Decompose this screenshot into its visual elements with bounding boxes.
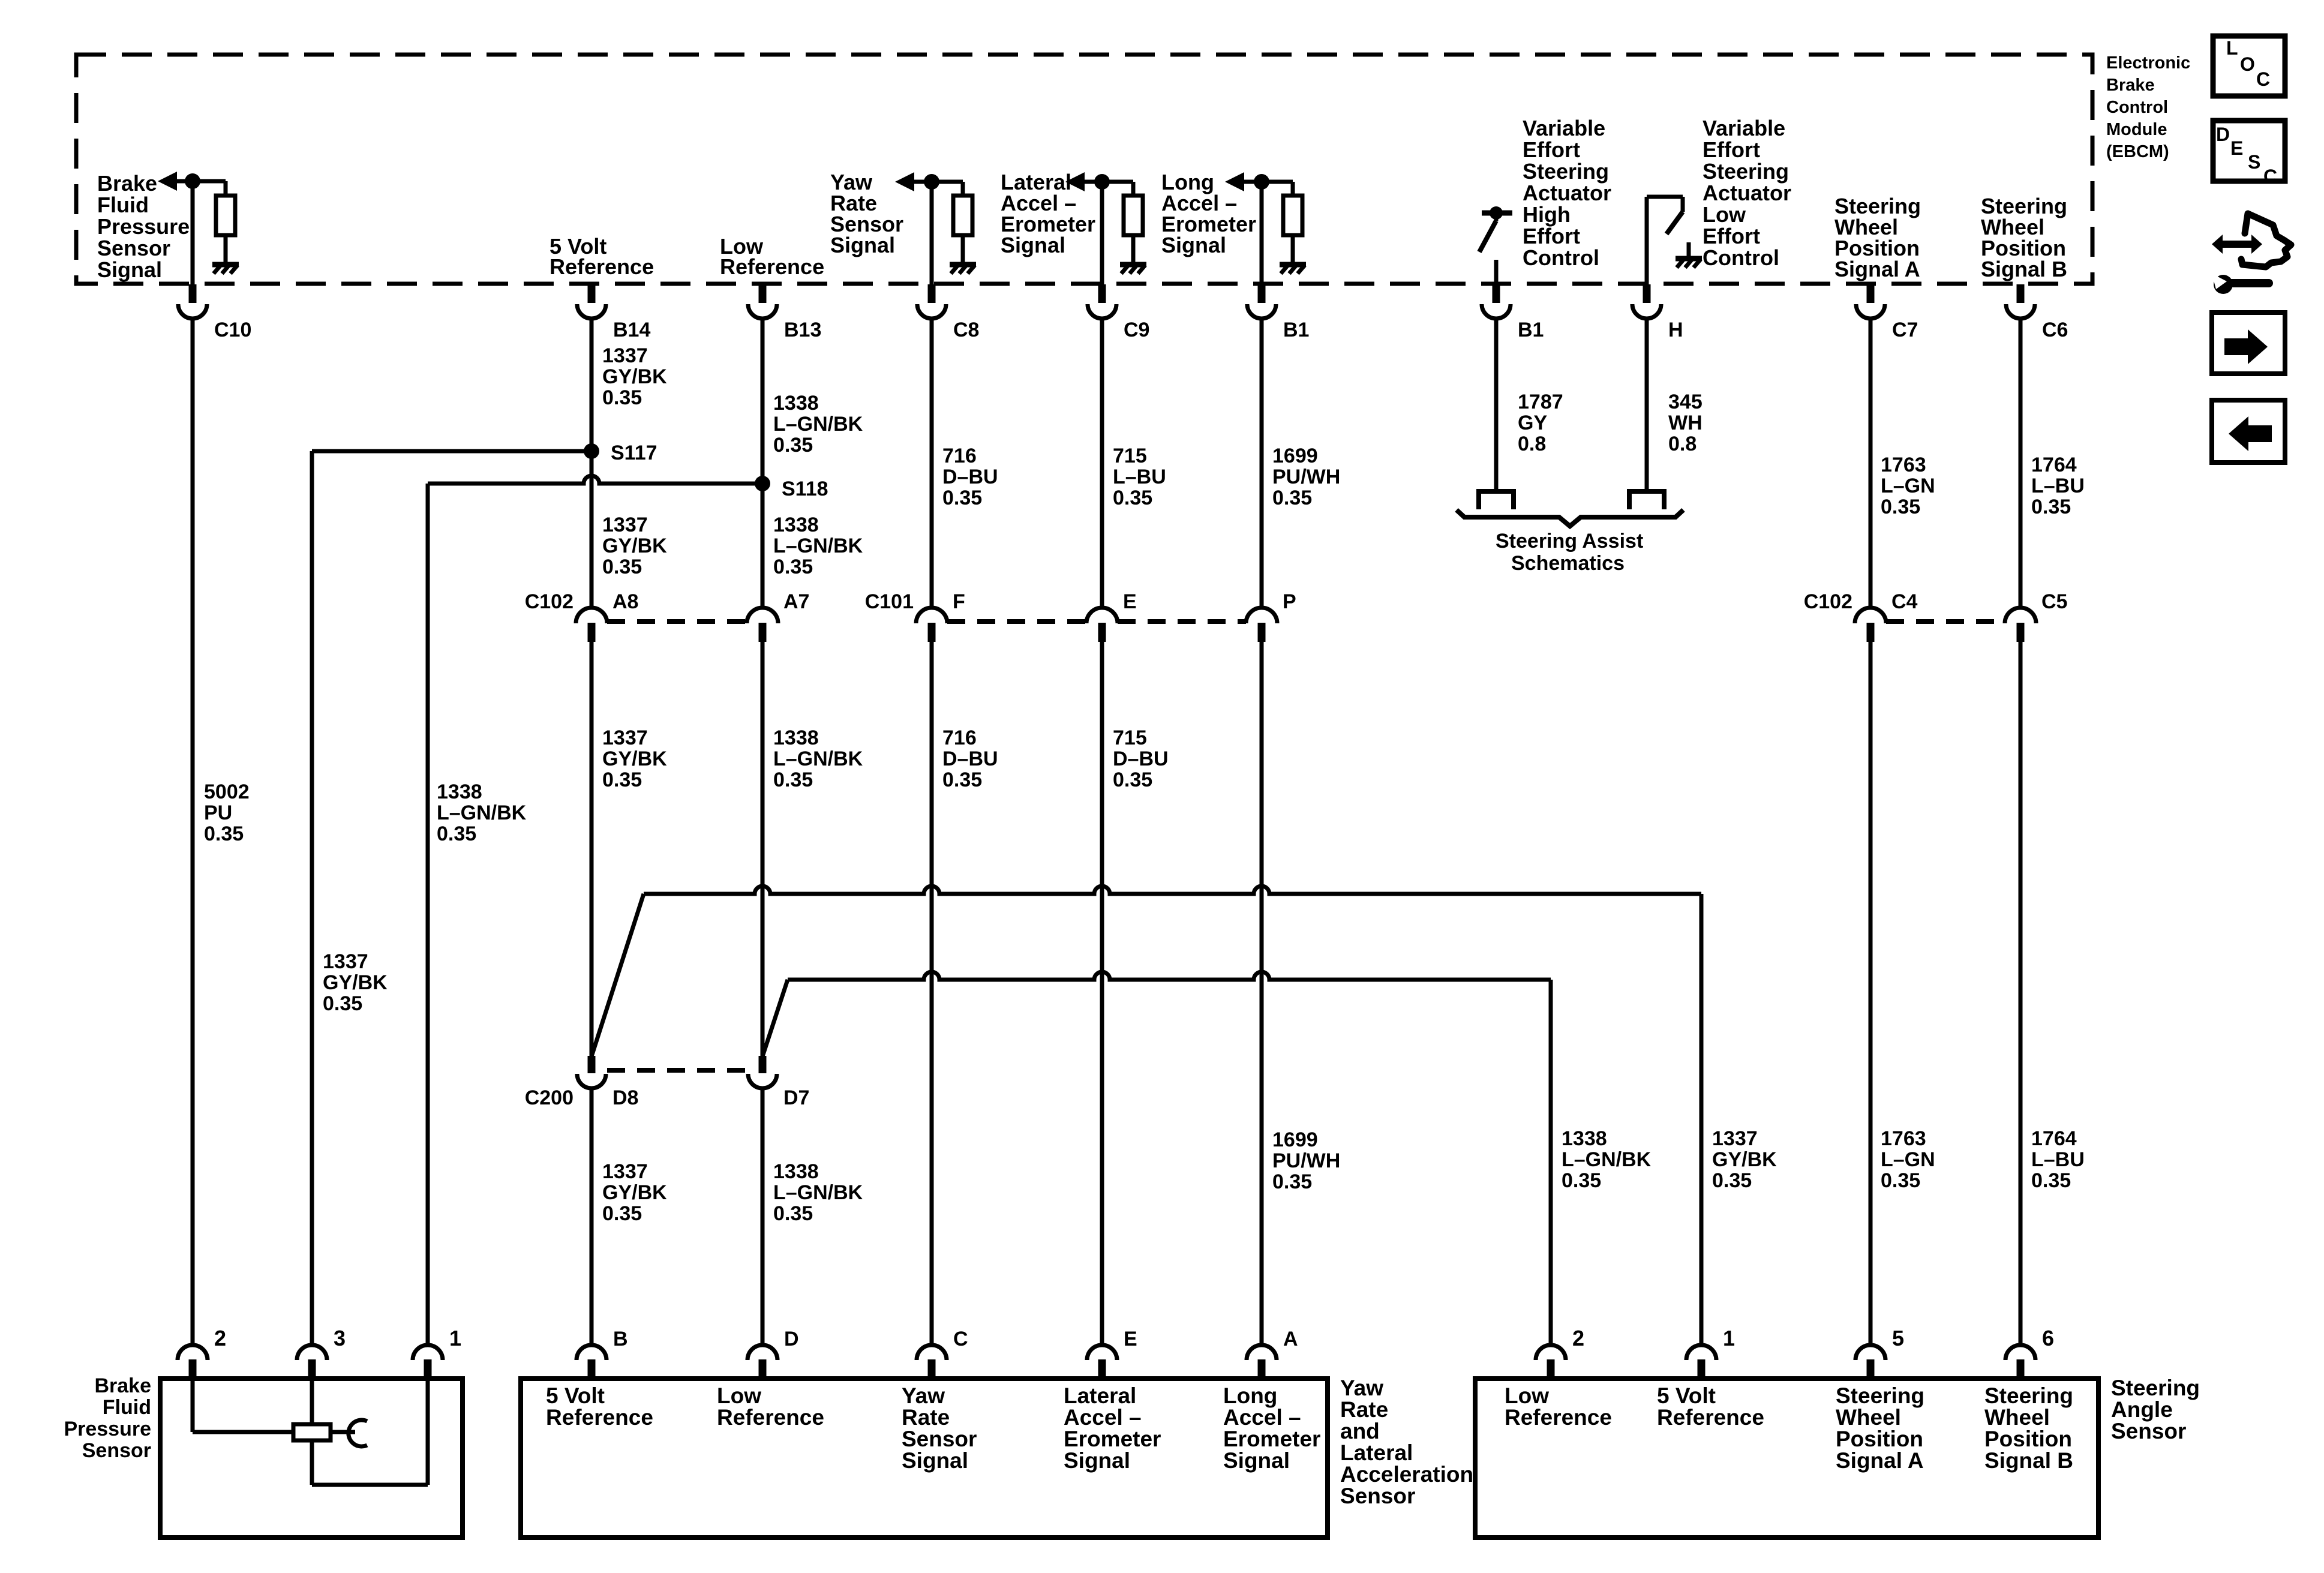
svg-text:0.35: 0.35 bbox=[602, 556, 642, 578]
svg-text:E: E bbox=[1123, 590, 1137, 613]
svg-text:716: 716 bbox=[942, 445, 977, 467]
svg-text:Control: Control bbox=[1703, 245, 1779, 270]
svg-text:Effort: Effort bbox=[1523, 137, 1580, 162]
svg-text:Rate: Rate bbox=[902, 1405, 950, 1430]
svg-text:S117: S117 bbox=[611, 442, 657, 464]
svg-text:A: A bbox=[1283, 1328, 1298, 1350]
svg-text:0.35: 0.35 bbox=[1562, 1169, 1601, 1192]
svg-text:Lateral: Lateral bbox=[1064, 1383, 1136, 1408]
svg-text:0.35: 0.35 bbox=[1113, 487, 1152, 509]
svg-text:WH: WH bbox=[1668, 412, 1703, 434]
svg-text:L–BU: L–BU bbox=[1113, 466, 1166, 488]
svg-text:1338: 1338 bbox=[773, 392, 819, 415]
svg-text:D8: D8 bbox=[612, 1086, 638, 1109]
svg-text:C200: C200 bbox=[525, 1086, 574, 1109]
svg-text:0.35: 0.35 bbox=[773, 1202, 813, 1225]
svg-text:Signal A: Signal A bbox=[1836, 1448, 1924, 1473]
svg-text:GY/BK: GY/BK bbox=[323, 971, 388, 994]
svg-text:Brake: Brake bbox=[2106, 76, 2155, 95]
svg-text:Signal: Signal bbox=[1064, 1448, 1130, 1473]
svg-text:Acceleration: Acceleration bbox=[1340, 1462, 1473, 1487]
svg-text:Actuator: Actuator bbox=[1523, 181, 1611, 205]
svg-text:C: C bbox=[953, 1328, 968, 1350]
svg-text:A7: A7 bbox=[783, 590, 809, 613]
svg-text:GY/BK: GY/BK bbox=[602, 748, 667, 770]
svg-text:Reference: Reference bbox=[717, 1405, 824, 1430]
svg-text:C: C bbox=[2256, 68, 2270, 90]
svg-text:S118: S118 bbox=[782, 478, 828, 500]
svg-text:Brake: Brake bbox=[97, 171, 157, 196]
svg-text:D–BU: D–BU bbox=[1113, 748, 1169, 770]
svg-text:1338: 1338 bbox=[773, 514, 819, 536]
svg-text:5: 5 bbox=[1892, 1326, 1904, 1350]
svg-text:1764: 1764 bbox=[2031, 1127, 2077, 1150]
svg-text:5 Volt: 5 Volt bbox=[546, 1383, 605, 1408]
svg-text:Yaw: Yaw bbox=[1340, 1376, 1383, 1400]
svg-text:0.35: 0.35 bbox=[602, 769, 642, 791]
svg-text:C9: C9 bbox=[1124, 319, 1149, 341]
svg-text:D–BU: D–BU bbox=[942, 748, 998, 770]
svg-text:PU: PU bbox=[204, 801, 232, 824]
svg-text:B1: B1 bbox=[1283, 319, 1309, 341]
svg-text:C102: C102 bbox=[1804, 590, 1852, 613]
svg-text:L–GN/BK: L–GN/BK bbox=[773, 748, 863, 770]
svg-text:Signal: Signal bbox=[97, 257, 162, 282]
svg-text:GY/BK: GY/BK bbox=[1712, 1148, 1777, 1171]
svg-text:Control: Control bbox=[1523, 245, 1599, 270]
svg-text:B14: B14 bbox=[613, 319, 650, 341]
svg-text:Sensor: Sensor bbox=[97, 236, 170, 260]
svg-text:1337: 1337 bbox=[602, 1160, 648, 1183]
svg-text:1337: 1337 bbox=[1712, 1127, 1758, 1150]
svg-text:0.8: 0.8 bbox=[1668, 433, 1697, 455]
svg-text:3: 3 bbox=[334, 1326, 346, 1350]
svg-text:Steering: Steering bbox=[1523, 159, 1609, 184]
svg-text:E: E bbox=[1124, 1328, 1137, 1350]
svg-text:5 Volt: 5 Volt bbox=[1657, 1383, 1716, 1408]
svg-text:Reference: Reference bbox=[550, 254, 654, 279]
svg-text:5002: 5002 bbox=[204, 781, 250, 803]
svg-text:2: 2 bbox=[1572, 1326, 1584, 1350]
svg-text:Brake: Brake bbox=[94, 1374, 151, 1397]
svg-text:B: B bbox=[613, 1328, 628, 1350]
svg-text:0.35: 0.35 bbox=[2031, 496, 2071, 518]
svg-text:Reference: Reference bbox=[1505, 1405, 1612, 1430]
svg-text:Steering Assist: Steering Assist bbox=[1496, 530, 1643, 553]
svg-text:GY: GY bbox=[1518, 412, 1547, 434]
svg-text:D–BU: D–BU bbox=[942, 466, 998, 488]
svg-text:Wheel: Wheel bbox=[1984, 1405, 2050, 1430]
svg-text:Pressure: Pressure bbox=[97, 214, 190, 239]
svg-text:L–BU: L–BU bbox=[2031, 475, 2085, 497]
svg-text:1337: 1337 bbox=[323, 950, 368, 973]
svg-text:1763: 1763 bbox=[1881, 1127, 1926, 1150]
svg-text:715: 715 bbox=[1113, 727, 1147, 749]
svg-text:L–BU: L–BU bbox=[2031, 1148, 2085, 1171]
svg-text:1: 1 bbox=[449, 1326, 461, 1350]
svg-text:Signal A: Signal A bbox=[1834, 257, 1920, 281]
svg-text:Long: Long bbox=[1223, 1383, 1277, 1408]
svg-text:Position: Position bbox=[1836, 1427, 1923, 1451]
svg-text:1338: 1338 bbox=[773, 1160, 819, 1183]
svg-text:Schematics: Schematics bbox=[1511, 552, 1625, 575]
svg-text:Actuator: Actuator bbox=[1703, 181, 1791, 205]
svg-text:Variable: Variable bbox=[1703, 116, 1785, 140]
svg-text:Module: Module bbox=[2106, 120, 2167, 139]
svg-text:C: C bbox=[2263, 166, 2277, 187]
svg-text:L–GN/BK: L–GN/BK bbox=[773, 1181, 863, 1204]
svg-text:C5: C5 bbox=[2041, 590, 2067, 613]
svg-text:C101: C101 bbox=[865, 590, 914, 613]
svg-text:Sensor: Sensor bbox=[82, 1439, 151, 1462]
svg-text:L: L bbox=[2226, 37, 2238, 59]
svg-text:Effort: Effort bbox=[1703, 224, 1760, 248]
svg-text:2: 2 bbox=[214, 1326, 226, 1350]
svg-text:0.35: 0.35 bbox=[437, 822, 476, 845]
svg-text:1699: 1699 bbox=[1272, 1128, 1318, 1151]
svg-text:Sensor: Sensor bbox=[2111, 1419, 2186, 1443]
svg-text:0.35: 0.35 bbox=[1881, 496, 1920, 518]
svg-text:High: High bbox=[1523, 202, 1571, 227]
svg-text:L–GN/BK: L–GN/BK bbox=[773, 413, 863, 436]
svg-text:1338: 1338 bbox=[1562, 1127, 1607, 1150]
svg-text:H: H bbox=[1668, 319, 1683, 341]
svg-text:6: 6 bbox=[2042, 1326, 2054, 1350]
svg-text:1699: 1699 bbox=[1272, 445, 1318, 467]
svg-text:(EBCM): (EBCM) bbox=[2106, 142, 2169, 161]
svg-text:Sensor: Sensor bbox=[902, 1427, 977, 1451]
svg-text:0.35: 0.35 bbox=[204, 822, 244, 845]
svg-text:Signal: Signal bbox=[1223, 1448, 1290, 1473]
svg-text:0.35: 0.35 bbox=[942, 769, 982, 791]
svg-text:Angle: Angle bbox=[2111, 1397, 2173, 1422]
svg-text:0.35: 0.35 bbox=[773, 556, 813, 578]
svg-text:A8: A8 bbox=[612, 590, 638, 613]
svg-text:1: 1 bbox=[1723, 1326, 1735, 1350]
svg-text:GY/BK: GY/BK bbox=[602, 1181, 667, 1204]
svg-text:D: D bbox=[2216, 124, 2230, 145]
svg-text:C8: C8 bbox=[953, 319, 979, 341]
svg-text:D7: D7 bbox=[783, 1086, 809, 1109]
svg-text:1338: 1338 bbox=[437, 781, 482, 803]
svg-text:L–GN/BK: L–GN/BK bbox=[1562, 1148, 1652, 1171]
svg-text:S: S bbox=[2248, 151, 2260, 173]
svg-text:0.35: 0.35 bbox=[602, 1202, 642, 1225]
svg-text:1763: 1763 bbox=[1881, 454, 1926, 476]
svg-text:Effort: Effort bbox=[1703, 137, 1760, 162]
svg-text:L–GN: L–GN bbox=[1881, 475, 1935, 497]
svg-text:Pressure: Pressure bbox=[64, 1418, 151, 1440]
svg-text:Signal: Signal bbox=[902, 1448, 968, 1473]
svg-text:0.35: 0.35 bbox=[1113, 769, 1152, 791]
svg-text:Sensor: Sensor bbox=[1340, 1484, 1415, 1508]
svg-text:0.8: 0.8 bbox=[1518, 433, 1546, 455]
svg-text:345: 345 bbox=[1668, 391, 1703, 413]
svg-text:Low: Low bbox=[1505, 1383, 1549, 1408]
svg-text:Fluid: Fluid bbox=[103, 1396, 151, 1419]
svg-text:0.35: 0.35 bbox=[1272, 487, 1312, 509]
svg-text:L–GN/BK: L–GN/BK bbox=[773, 535, 863, 557]
svg-text:Electronic: Electronic bbox=[2106, 53, 2190, 73]
svg-text:0.35: 0.35 bbox=[602, 386, 642, 409]
svg-text:0.35: 0.35 bbox=[1881, 1169, 1920, 1192]
svg-text:C7: C7 bbox=[1892, 319, 1918, 341]
svg-text:Signal: Signal bbox=[830, 233, 895, 257]
svg-text:1337: 1337 bbox=[602, 344, 648, 367]
svg-text:1337: 1337 bbox=[602, 514, 648, 536]
svg-text:Reference: Reference bbox=[1657, 1405, 1764, 1430]
svg-text:Signal: Signal bbox=[1161, 233, 1226, 257]
svg-text:Position: Position bbox=[1984, 1427, 2072, 1451]
svg-text:Low: Low bbox=[1703, 202, 1746, 227]
svg-text:Steering: Steering bbox=[1836, 1383, 1924, 1408]
svg-text:1338: 1338 bbox=[773, 727, 819, 749]
svg-text:Lateral: Lateral bbox=[1340, 1440, 1413, 1465]
svg-text:1787: 1787 bbox=[1518, 391, 1563, 413]
svg-text:Wheel: Wheel bbox=[1836, 1405, 1901, 1430]
svg-text:F: F bbox=[953, 590, 965, 613]
svg-text:Yaw: Yaw bbox=[902, 1383, 945, 1408]
svg-text:0.35: 0.35 bbox=[1272, 1170, 1312, 1193]
svg-text:0.35: 0.35 bbox=[1712, 1169, 1752, 1192]
svg-text:P: P bbox=[1283, 590, 1296, 613]
svg-text:B1: B1 bbox=[1518, 319, 1544, 341]
svg-text:GY/BK: GY/BK bbox=[602, 535, 667, 557]
svg-text:0.35: 0.35 bbox=[773, 434, 813, 457]
svg-text:C6: C6 bbox=[2042, 319, 2068, 341]
svg-text:C102: C102 bbox=[525, 590, 574, 613]
svg-text:PU/WH: PU/WH bbox=[1272, 466, 1340, 488]
svg-text:Signal: Signal bbox=[1001, 233, 1065, 257]
svg-text:Effort: Effort bbox=[1523, 224, 1580, 248]
svg-text:0.35: 0.35 bbox=[323, 992, 362, 1015]
svg-text:Control: Control bbox=[2106, 98, 2168, 117]
svg-text:E: E bbox=[2230, 137, 2243, 159]
svg-text:Rate: Rate bbox=[1340, 1397, 1388, 1422]
svg-text:Reference: Reference bbox=[720, 254, 824, 279]
svg-text:and: and bbox=[1340, 1419, 1380, 1443]
svg-text:Steering: Steering bbox=[1984, 1383, 2073, 1408]
svg-text:0.35: 0.35 bbox=[942, 487, 982, 509]
svg-text:Reference: Reference bbox=[546, 1405, 653, 1430]
svg-text:0.35: 0.35 bbox=[2031, 1169, 2071, 1192]
svg-text:Variable: Variable bbox=[1523, 116, 1605, 140]
svg-text:1337: 1337 bbox=[602, 727, 648, 749]
svg-text:L–GN: L–GN bbox=[1881, 1148, 1935, 1171]
svg-text:Steering: Steering bbox=[1703, 159, 1789, 184]
svg-text:1764: 1764 bbox=[2031, 454, 2077, 476]
svg-text:Accel –: Accel – bbox=[1223, 1405, 1301, 1430]
svg-text:Fluid: Fluid bbox=[97, 193, 149, 217]
svg-text:C4: C4 bbox=[1891, 590, 1918, 613]
svg-text:D: D bbox=[784, 1328, 799, 1350]
svg-text:Steering: Steering bbox=[2111, 1376, 2200, 1400]
svg-text:GY/BK: GY/BK bbox=[602, 365, 667, 388]
svg-text:PU/WH: PU/WH bbox=[1272, 1149, 1340, 1172]
svg-text:715: 715 bbox=[1113, 445, 1147, 467]
svg-text:Erometer: Erometer bbox=[1064, 1427, 1161, 1451]
svg-text:Erometer: Erometer bbox=[1223, 1427, 1320, 1451]
svg-text:Accel –: Accel – bbox=[1064, 1405, 1142, 1430]
svg-text:C10: C10 bbox=[214, 319, 251, 341]
svg-text:716: 716 bbox=[942, 727, 977, 749]
svg-text:Signal B: Signal B bbox=[1984, 1448, 2073, 1473]
svg-text:Signal B: Signal B bbox=[1981, 257, 2067, 281]
svg-text:Low: Low bbox=[717, 1383, 761, 1408]
svg-text:B13: B13 bbox=[784, 319, 821, 341]
svg-text:0.35: 0.35 bbox=[773, 769, 813, 791]
svg-text:O: O bbox=[2240, 53, 2255, 75]
svg-text:L–GN/BK: L–GN/BK bbox=[437, 801, 527, 824]
